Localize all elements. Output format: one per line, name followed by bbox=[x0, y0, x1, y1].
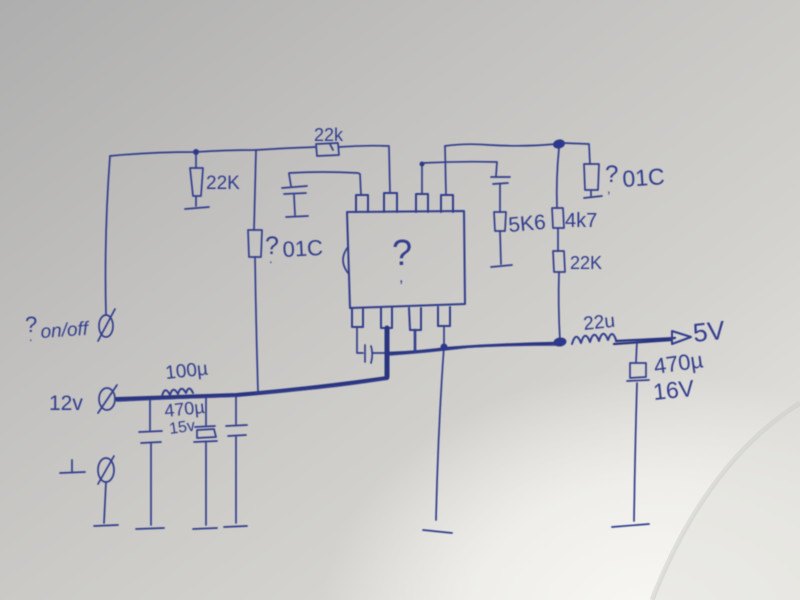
wire left vertical to on/off connector bbox=[106, 156, 111, 315]
wire vertical from top rail to 01C resistor (left) bbox=[254, 150, 256, 230]
resistor 22K (right) bbox=[553, 251, 565, 272]
IC notch bbox=[343, 247, 348, 273]
ground bar under C3 bbox=[224, 526, 247, 527]
wire junction to 01C component (top right) bbox=[563, 143, 590, 164]
wire top right rail (pin D to junction) bbox=[445, 144, 556, 146]
svg-text:15v: 15v bbox=[168, 418, 196, 438]
ground symbol label (⊥) bbox=[60, 460, 85, 473]
ground bar under C1 bbox=[136, 528, 164, 529]
node junction dot on top rail bbox=[193, 149, 199, 155]
12V thick rail bbox=[117, 378, 387, 399]
connector ground bbox=[98, 458, 114, 482]
wire pin G down to rail bbox=[414, 330, 417, 352]
pin G stub (bottom) bbox=[409, 308, 421, 330]
wire pin B up to top rail bbox=[389, 147, 390, 193]
svg-text:01C: 01C bbox=[622, 163, 666, 192]
node dot at pin C corner bbox=[420, 162, 425, 167]
svg-text:22K: 22K bbox=[570, 253, 602, 273]
pin C stub (top) bbox=[416, 194, 428, 212]
op-amp U1 (IC body) bbox=[347, 211, 465, 308]
connector on/off bbox=[99, 315, 113, 337]
wire pin F thick vertical bbox=[385, 328, 390, 377]
resistor 4k7 bbox=[552, 208, 564, 228]
pin H stub (bottom) bbox=[438, 307, 450, 326]
capacitor C1 on 12V rail bbox=[139, 400, 162, 525]
paper curl crease bottom right bbox=[652, 403, 800, 600]
svg-text:on/off: on/off bbox=[40, 319, 91, 343]
svg-text:.: . bbox=[269, 251, 273, 266]
wire top rail right of 22k to pin B corner bbox=[339, 146, 389, 147]
svg-text:,: , bbox=[399, 269, 403, 286]
ground bar under 470u bbox=[193, 528, 217, 529]
5V rail after inductor bbox=[614, 338, 675, 344]
capacitor above 5K6 bbox=[491, 177, 510, 212]
resistor 5K6 bbox=[494, 212, 506, 264]
wire 4k7 to 22K bbox=[557, 228, 559, 251]
ground bar under 470u 16V bbox=[612, 524, 649, 527]
wire pin C up and right bbox=[421, 164, 423, 194]
wire pin D up bbox=[445, 146, 446, 195]
pin B stub (top) bbox=[384, 193, 397, 212]
pin D stub (top) bbox=[441, 195, 453, 212]
terminal bar under 22K bbox=[185, 207, 209, 209]
wire from 01C resistor down to 12V rail bbox=[255, 257, 258, 391]
ground bar under pin H wire bbox=[423, 530, 452, 533]
wire from capacitor top to pin A bbox=[289, 172, 361, 195]
node blob pin H at rail bbox=[441, 344, 448, 351]
svg-text:,: , bbox=[607, 181, 611, 196]
svg-text:22k: 22k bbox=[314, 125, 344, 145]
svg-text:5K6: 5K6 bbox=[507, 211, 546, 237]
svg-text:.: . bbox=[29, 329, 33, 344]
svg-text:5V: 5V bbox=[691, 315, 726, 348]
ground bar left bbox=[94, 525, 118, 526]
svg-text:22K: 22K bbox=[206, 173, 240, 194]
capacitor 01C (top right) bbox=[584, 164, 599, 196]
wire capacitor to pin F vertical bbox=[373, 352, 386, 354]
resistor 22k horizontal (top) bbox=[316, 143, 339, 156]
connector 12V input bbox=[99, 388, 115, 410]
capacitor series at pin E bbox=[365, 345, 372, 363]
inductor 22u bbox=[572, 334, 616, 344]
5V rail from pin F to inductor bbox=[389, 343, 557, 353]
resistor 22K vertical (left) bbox=[190, 155, 203, 206]
terminal bar under 5K6 bbox=[491, 265, 512, 267]
capacitor C3 on 12V rail bbox=[226, 396, 247, 523]
capacitor 470u electrolytic on 12V rail bbox=[194, 397, 217, 525]
svg-text:12v: 12v bbox=[49, 392, 83, 415]
svg-text:01C: 01C bbox=[282, 235, 324, 262]
svg-text:100µ: 100µ bbox=[164, 359, 209, 384]
wire pin H down to ground bbox=[436, 326, 444, 520]
arrow 5V output bbox=[672, 331, 691, 344]
resistor ?01C (left) bbox=[248, 230, 262, 257]
capacitor 0.1u near pin A bbox=[282, 174, 307, 215]
svg-text:22u: 22u bbox=[582, 311, 616, 335]
wire 22K down to 5V rail bbox=[559, 272, 560, 341]
svg-text:?: ? bbox=[392, 232, 412, 273]
pin F stub (bottom) bbox=[381, 308, 392, 328]
terminal bar under 01C bbox=[584, 196, 602, 198]
svg-text:4k7: 4k7 bbox=[565, 210, 597, 232]
inductor 100u on 12V rail bbox=[162, 389, 193, 397]
wire junction down to 4k7 bbox=[557, 148, 559, 208]
svg-text:16V: 16V bbox=[652, 375, 696, 405]
wire pin C rail to 5K6 cap bbox=[422, 162, 497, 176]
node junction blob top right bbox=[552, 138, 566, 149]
node junction blob at 22K rail bbox=[553, 337, 567, 348]
pin E stub (bottom) bbox=[352, 308, 363, 327]
pin A stub (top) bbox=[356, 195, 368, 212]
capacitor 470u 16V on 5V rail bbox=[627, 341, 649, 521]
wire from ground connector down bbox=[104, 482, 106, 523]
wire top rail left segment bbox=[110, 147, 316, 156]
wire pin E down and right bbox=[357, 327, 363, 353]
svg-text:470µ: 470µ bbox=[163, 397, 205, 421]
terminal bar under capacitor bbox=[286, 216, 308, 217]
